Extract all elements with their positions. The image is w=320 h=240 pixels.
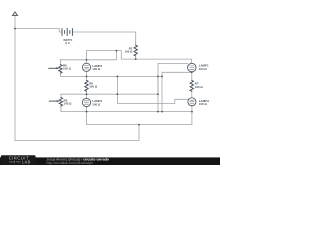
svg-text:100 Ω: 100 Ω	[199, 67, 208, 71]
svg-text:9 V: 9 V	[65, 41, 69, 45]
node flag arrow (top-left)	[13, 12, 18, 15]
svg-text:100 Ω: 100 Ω	[92, 102, 101, 106]
wire: cell2 bottom rail to lamp4 leg	[61, 111, 192, 113]
wire: battery branch from left rail	[15, 29, 62, 33]
svg-text:100 Ω: 100 Ω	[64, 102, 73, 106]
wire: rail left segment, turns up at 116.5	[60, 51, 116, 60]
resistor R1 zigzag	[134, 45, 137, 56]
wire: left rail vertical	[14, 15, 16, 140]
R5 arrow	[49, 100, 57, 102]
svg-text:100 Ω: 100 Ω	[92, 67, 101, 71]
wire C: cell1 bottom to lamp1 top	[158, 63, 188, 94]
wire: R6 leads	[59, 59, 61, 76]
lamp LAMP3	[82, 98, 90, 106]
wire: battery to R1 top	[72, 32, 135, 45]
wire: R4 leads	[86, 76, 88, 94]
wire: rail right segment to lamp1	[121, 59, 191, 63]
wire: lamp3 leads	[86, 94, 88, 111]
wire: lamp2 vertical upper	[86, 51, 88, 64]
svg-text:LAB: LAB	[22, 160, 31, 165]
svg-text:100 Ω: 100 Ω	[195, 85, 204, 89]
lamp LAMP1	[188, 63, 197, 72]
resistor R5 (rheostat) zigzag	[59, 97, 62, 106]
wire E: cell2 top to lamp4 top	[117, 76, 188, 103]
svg-text:100 Ω: 100 Ω	[63, 67, 72, 71]
wire D: cell1 bottom rail end down to lamp1 bottom	[162, 72, 192, 76]
wire: lamp4 bottom leg	[191, 106, 193, 125]
wire: cell1 bottom rail	[60, 75, 162, 77]
wire: vertical V2	[161, 76, 163, 111]
junction dots	[14, 28, 193, 126]
battery BATT1 plates	[61, 29, 63, 36]
svg-text:100 Ω: 100 Ω	[199, 102, 208, 106]
wire: lamp1 to R7 leads	[191, 72, 193, 98]
component labels	[63, 38, 209, 106]
svg-text:100 Ω: 100 Ω	[89, 85, 98, 89]
lamp LAMP4	[188, 98, 196, 106]
R6 arrow	[49, 67, 57, 69]
resistor R7 zigzag	[190, 80, 193, 91]
wire B loop above lamp2	[87, 51, 122, 60]
wire: bottom-most return to battery minus	[15, 125, 139, 141]
wire: vertical V1	[157, 76, 159, 111]
wire H: bottom return	[87, 112, 192, 125]
svg-text:100 Ω: 100 Ω	[125, 50, 134, 54]
resistor R4 zigzag	[85, 80, 88, 91]
lamp LAMP2	[82, 63, 90, 71]
svg-text:http://circuitlab.com/c/9cxk4d: http://circuitlab.com/c/9cxk4dym	[47, 161, 94, 165]
resistor R6 (rheostat) zigzag	[59, 65, 62, 74]
circuitlab logo: dash bolt dash LAB	[9, 161, 21, 164]
wire: R5 leads	[60, 94, 62, 111]
wire: cell2 top rail	[61, 93, 158, 95]
circuitlab logo badge	[1, 155, 36, 165]
footer bar	[0, 155, 220, 165]
wire: lamp2 lower lead	[86, 71, 88, 76]
wire: R1 bottom lead	[135, 56, 137, 59]
